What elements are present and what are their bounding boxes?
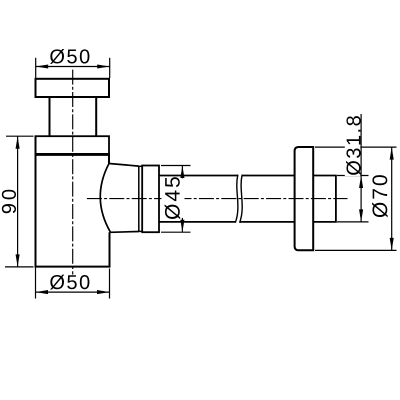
outlet bottom edge: [111, 231, 139, 234]
pipe stub through flange: [313, 176, 336, 222]
dim Ø50 top: right arrowhead: [97, 64, 110, 68]
dim 90: bottom extension line: [5, 266, 34, 268]
outlet top edge: [109, 164, 139, 167]
dim Ø70: label: [372, 175, 388, 217]
dim Ø50 bottom: left arrowhead: [36, 290, 49, 294]
dim Ø50 bottom: label: [50, 275, 89, 290]
dim Ø70: dimension line: [391, 147, 393, 250]
dim Ø45: up arrowhead: [180, 166, 184, 179]
dim Ø31.8: up arrowhead: [359, 176, 363, 189]
pipe break line 2: [240, 175, 243, 223]
dim Ø31.8: bottom extension line: [337, 221, 369, 223]
dim Ø50 top: dimension line: [36, 66, 110, 68]
dim Ø50 bottom: left extension line: [35, 267, 37, 299]
dim Ø70: down arrowhead: [390, 238, 394, 251]
dim Ø50 bottom: right extension line: [109, 269, 111, 299]
pipe break line 1: [235, 175, 238, 223]
dim Ø50 top: label: [50, 49, 89, 64]
dim Ø45: dimension line: [181, 166, 183, 233]
dim Ø50 bottom: right arrowhead: [97, 290, 110, 294]
dim Ø50 bottom: dimension line: [36, 291, 110, 293]
dim Ø31.8: top extension line: [337, 175, 369, 177]
dim 90: down arrowhead: [16, 254, 20, 267]
dim Ø50 top: left extension line: [35, 58, 37, 78]
body cap ring: [36, 136, 110, 154]
compression nut: [142, 166, 159, 233]
dim 90: up arrowhead: [16, 136, 20, 149]
dim 90: top extension line: [6, 135, 34, 137]
wall flange: [295, 147, 314, 250]
dim Ø50 top: left arrowhead: [36, 64, 49, 68]
dim Ø50 top: right extension line: [109, 58, 111, 78]
bottle trap body: top flange: [36, 79, 110, 97]
dim 90: label: [2, 190, 16, 214]
stem left wire: [49, 97, 51, 136]
stem right wire: [95, 97, 97, 136]
dim Ø45: label mask: [162, 178, 185, 218]
dim Ø31.8: label: [346, 116, 361, 175]
dim Ø45: top extension line: [161, 165, 191, 167]
outlet bulge arc: [100, 164, 110, 233]
dim Ø70: up arrowhead: [390, 147, 394, 160]
pipe top wire: [159, 175, 295, 177]
body outline: [35, 136, 110, 266]
dim Ø70: bottom extension line: [315, 249, 397, 251]
vertical centerline: [72, 70, 74, 275]
dim Ø45: label: [165, 177, 181, 219]
dim 90: dimension line: [17, 136, 19, 267]
dim Ø31.8: label mask: [345, 112, 361, 176]
pipe bottom wire: [159, 221, 295, 223]
dim Ø31.8: down arrowhead: [359, 209, 363, 222]
dim Ø45: down arrowhead: [180, 220, 184, 233]
dim Ø45: bottom extension line: [161, 231, 191, 233]
horizontal centerline: [87, 198, 348, 200]
body cap bold joint line: [35, 153, 110, 156]
dim Ø31.8: dimension line: [360, 114, 362, 222]
washer ring: [139, 166, 142, 231]
dim Ø70: top extension line: [315, 146, 397, 148]
